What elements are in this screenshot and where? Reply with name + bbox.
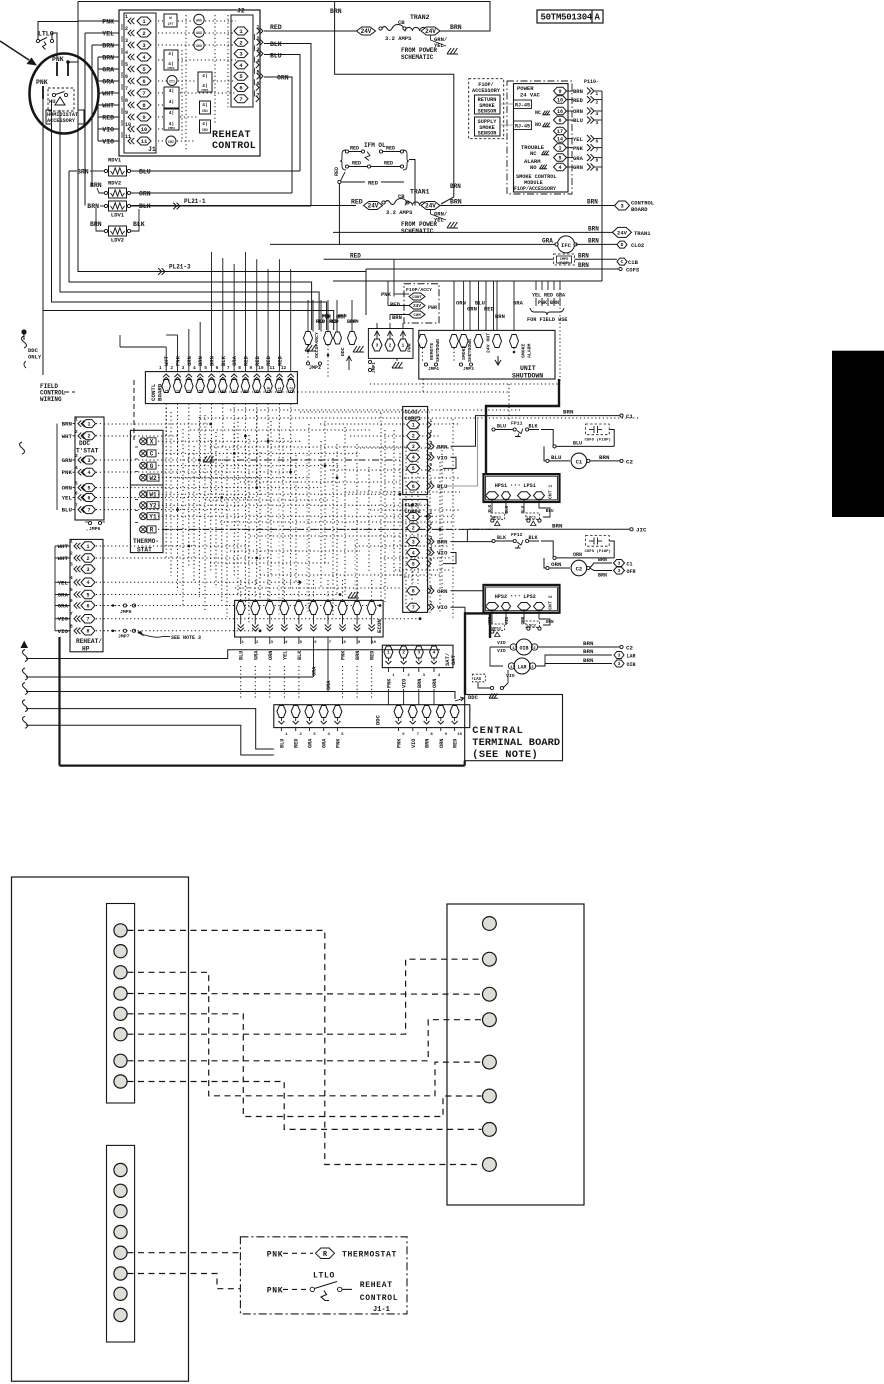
svg-text:PNK: PNK bbox=[381, 291, 392, 298]
svg-text:6: 6 bbox=[87, 495, 90, 501]
svg-text:(SEE NOTE): (SEE NOTE) bbox=[472, 749, 538, 761]
svg-text:9: 9 bbox=[250, 365, 253, 371]
svg-text:RED: RED bbox=[453, 739, 459, 748]
svg-text:ORN: ORN bbox=[573, 108, 583, 115]
svg-text:ORN: ORN bbox=[432, 679, 438, 688]
svg-text:THERMO-: THERMO- bbox=[133, 538, 159, 545]
svg-text:BRN: BRN bbox=[102, 43, 114, 50]
svg-text:GRA: GRA bbox=[322, 738, 328, 748]
svg-text:F1OP/ACCESSORY: F1OP/ACCESSORY bbox=[514, 186, 556, 192]
svg-text:PNK: PNK bbox=[538, 300, 547, 306]
svg-text:YEL: YEL bbox=[532, 293, 541, 299]
svg-text:4: 4 bbox=[430, 451, 433, 457]
svg-text:FOR FIELD USE: FOR FIELD USE bbox=[527, 317, 567, 323]
svg-text:3.2 AMPS: 3.2 AMPS bbox=[386, 209, 413, 216]
svg-text:TERMINAL BOARD: TERMINAL BOARD bbox=[472, 737, 560, 749]
svg-text:11: 11 bbox=[141, 138, 148, 145]
svg-text:2: 2 bbox=[142, 30, 145, 37]
svg-text:J2: J2 bbox=[237, 8, 245, 15]
svg-text:PWR: PWR bbox=[428, 305, 437, 311]
svg-text:CR1: CR1 bbox=[202, 109, 208, 113]
svg-text:RDV2: RDV2 bbox=[108, 180, 121, 187]
svg-text:SMOKE: SMOKE bbox=[521, 343, 527, 358]
svg-text:4: 4 bbox=[87, 470, 90, 476]
svg-text:F1OP/ACCY: F1OP/ACCY bbox=[406, 287, 432, 293]
svg-text:1: 1 bbox=[430, 510, 433, 516]
svg-text:3: 3 bbox=[618, 661, 621, 667]
svg-text:6: 6 bbox=[75, 491, 78, 497]
svg-text:PNK: PNK bbox=[573, 145, 584, 152]
svg-text:GRA: GRA bbox=[102, 79, 114, 86]
svg-text:5: 5 bbox=[70, 587, 73, 593]
svg-text:ORN: ORN bbox=[573, 552, 582, 558]
svg-text:BLU: BLU bbox=[546, 509, 554, 514]
svg-text:WHT: WHT bbox=[58, 543, 69, 550]
svg-text:3: 3 bbox=[70, 562, 73, 568]
svg-text:10: 10 bbox=[141, 126, 148, 133]
svg-text:PNK: PNK bbox=[36, 79, 48, 86]
svg-text:RED: RED bbox=[350, 146, 359, 152]
svg-text:YEL: YEL bbox=[573, 136, 584, 143]
svg-text:RED: RED bbox=[351, 199, 363, 206]
svg-text:PNK: PNK bbox=[267, 1286, 284, 1295]
svg-text:DDC: DDC bbox=[375, 714, 382, 725]
svg-text:2: 2 bbox=[596, 100, 599, 106]
svg-text:9: 9 bbox=[142, 114, 145, 121]
svg-text:ORN: ORN bbox=[521, 616, 526, 624]
svg-text:JIC: JIC bbox=[636, 527, 647, 534]
svg-text:ALARM: ALARM bbox=[527, 343, 533, 358]
svg-text:CONT: CONT bbox=[412, 296, 422, 300]
svg-text:OFR: OFR bbox=[627, 569, 636, 575]
svg-text:6: 6 bbox=[70, 598, 73, 604]
svg-text:BLU: BLU bbox=[551, 454, 562, 461]
svg-text:1: 1 bbox=[412, 423, 415, 429]
svg-text:D: D bbox=[621, 242, 624, 248]
svg-text:GRA: GRA bbox=[573, 155, 584, 162]
svg-text:7: 7 bbox=[70, 611, 73, 617]
svg-text:A: A bbox=[595, 13, 601, 23]
svg-text:GRA: GRA bbox=[513, 300, 524, 307]
svg-text:NO: NO bbox=[535, 122, 541, 128]
svg-text:11: 11 bbox=[279, 386, 283, 392]
svg-text:CONTROL: CONTROL bbox=[360, 1294, 399, 1303]
svg-text:RED: RED bbox=[386, 146, 395, 152]
svg-text:BLU: BLU bbox=[239, 651, 245, 660]
svg-text:BRN: BRN bbox=[450, 24, 462, 31]
svg-text:RED: RED bbox=[350, 252, 361, 259]
svg-text:4|: 4| bbox=[169, 88, 174, 94]
svg-text:ORN: ORN bbox=[62, 485, 73, 492]
svg-text:4|: 4| bbox=[168, 51, 173, 57]
svg-text:C2: C2 bbox=[626, 458, 633, 465]
svg-text:X: X bbox=[150, 439, 154, 446]
svg-text:BLK: BLK bbox=[139, 203, 151, 210]
svg-text:BLK: BLK bbox=[497, 535, 506, 541]
svg-text:BRN: BRN bbox=[583, 640, 594, 647]
svg-text:3: 3 bbox=[412, 444, 415, 450]
svg-text:5: 5 bbox=[257, 70, 260, 76]
svg-text:OAT: OAT bbox=[450, 654, 457, 665]
svg-text:JMP1: JMP1 bbox=[371, 362, 377, 373]
svg-text:4: 4 bbox=[433, 650, 436, 656]
svg-text:LTLO: LTLO bbox=[313, 1272, 335, 1281]
svg-text:BRN: BRN bbox=[347, 319, 356, 325]
svg-text:COFS: COFS bbox=[626, 267, 640, 274]
svg-text:GRN: GRN bbox=[62, 457, 73, 464]
svg-text:BRN: BRN bbox=[62, 421, 73, 428]
svg-text:BLK: BLK bbox=[220, 355, 227, 366]
svg-text:4|: 4| bbox=[202, 121, 207, 127]
svg-text:C: C bbox=[150, 451, 154, 458]
svg-text:VIO: VIO bbox=[102, 139, 114, 146]
svg-text:6: 6 bbox=[125, 74, 128, 80]
svg-text:BRN: BRN bbox=[437, 443, 448, 450]
svg-text:4: 4 bbox=[596, 111, 599, 117]
svg-text:IFC: IFC bbox=[561, 242, 572, 249]
svg-text:11: 11 bbox=[269, 365, 275, 371]
svg-text:CR2: CR2 bbox=[202, 128, 208, 132]
svg-text:PWR: PWR bbox=[407, 343, 413, 352]
svg-text:2: 2 bbox=[170, 365, 173, 371]
svg-text:C1: C1 bbox=[576, 458, 583, 465]
svg-text:WHT: WHT bbox=[102, 103, 114, 110]
svg-text:FROM POWER: FROM POWER bbox=[401, 221, 437, 228]
svg-text:BRN: BRN bbox=[450, 199, 462, 206]
svg-text:RED: RED bbox=[384, 161, 393, 167]
svg-text:C1: C1 bbox=[627, 562, 633, 568]
svg-text:VIO: VIO bbox=[58, 628, 69, 635]
svg-text:4: 4 bbox=[412, 550, 415, 556]
svg-text:RED: RED bbox=[276, 355, 283, 366]
svg-text:JMP5: JMP5 bbox=[120, 609, 132, 615]
svg-text:BRN: BRN bbox=[563, 409, 574, 416]
svg-text:14: 14 bbox=[557, 136, 563, 142]
svg-text:24V: 24V bbox=[425, 28, 436, 35]
svg-text:TRAN1: TRAN1 bbox=[410, 189, 430, 196]
svg-text:ORN: ORN bbox=[139, 191, 151, 198]
svg-text:NC: NC bbox=[535, 110, 541, 116]
svg-text:7: 7 bbox=[87, 507, 90, 513]
svg-text:BRN: BRN bbox=[550, 300, 559, 306]
svg-text:2: 2 bbox=[389, 343, 392, 349]
svg-text:RED: RED bbox=[294, 739, 300, 748]
svg-text:24V: 24V bbox=[425, 203, 436, 210]
svg-text:CT1: CT1 bbox=[169, 80, 175, 84]
svg-text:2: 2 bbox=[125, 26, 128, 32]
svg-text:BRN: BRN bbox=[573, 88, 583, 95]
svg-text:OIB: OIB bbox=[627, 662, 636, 668]
svg-text:JMP7: JMP7 bbox=[118, 634, 130, 640]
svg-text:3: 3 bbox=[376, 343, 379, 349]
svg-text:PNK: PNK bbox=[52, 56, 64, 63]
svg-text:RJ-45: RJ-45 bbox=[515, 124, 530, 130]
svg-text:BRN: BRN bbox=[330, 8, 342, 15]
svg-text:BLK: BLK bbox=[297, 650, 303, 660]
svg-text:COFS (F1OP): COFS (F1OP) bbox=[585, 437, 611, 442]
svg-text:BRN: BRN bbox=[583, 648, 594, 655]
svg-text:BRN: BRN bbox=[90, 182, 102, 189]
svg-text:BLU: BLU bbox=[270, 53, 282, 60]
svg-text:12: 12 bbox=[281, 365, 287, 371]
svg-text:BRN: BRN bbox=[578, 252, 589, 259]
svg-text:PNK: PNK bbox=[267, 1250, 284, 1259]
svg-text:REHEAT: REHEAT bbox=[360, 1281, 393, 1290]
svg-text:BRN: BRN bbox=[578, 262, 589, 269]
svg-text:BRN: BRN bbox=[417, 679, 423, 688]
svg-text:1: 1 bbox=[412, 514, 415, 520]
svg-text:COM: COM bbox=[413, 314, 421, 318]
svg-text:6: 6 bbox=[216, 365, 219, 371]
svg-text:GRN: GRN bbox=[573, 164, 583, 171]
svg-text:ORN: ORN bbox=[437, 588, 448, 595]
svg-text:C2: C2 bbox=[576, 565, 583, 572]
svg-text:BOARD: BOARD bbox=[631, 206, 648, 213]
svg-text:TRAN2: TRAN2 bbox=[410, 14, 430, 21]
svg-text:BLU: BLU bbox=[62, 507, 73, 514]
svg-text:HP: HP bbox=[82, 646, 90, 653]
svg-text:VIO: VIO bbox=[402, 679, 408, 688]
svg-text:1: 1 bbox=[87, 421, 90, 427]
svg-text:SHUTDOWN: SHUTDOWN bbox=[435, 339, 441, 362]
svg-text:3: 3 bbox=[430, 440, 433, 446]
svg-text:RJ-45: RJ-45 bbox=[515, 103, 530, 109]
svg-text:WHT: WHT bbox=[102, 91, 114, 98]
svg-text:BLU: BLU bbox=[573, 117, 583, 124]
svg-text:24 VAC: 24 VAC bbox=[520, 92, 541, 99]
svg-text:BRN: BRN bbox=[587, 199, 598, 206]
svg-text:BRN: BRN bbox=[87, 203, 99, 210]
svg-text:R: R bbox=[150, 527, 154, 534]
svg-text:RED: RED bbox=[334, 167, 340, 176]
svg-text:6: 6 bbox=[430, 480, 433, 486]
svg-text:7: 7 bbox=[239, 96, 242, 103]
svg-text:10: 10 bbox=[371, 641, 376, 645]
svg-text:OIB: OIB bbox=[519, 646, 528, 652]
svg-text:PL21-1: PL21-1 bbox=[184, 198, 206, 205]
svg-text:3: 3 bbox=[182, 365, 185, 371]
svg-text:24V: 24V bbox=[368, 203, 379, 210]
svg-text:2: 2 bbox=[75, 429, 78, 435]
svg-text:6: 6 bbox=[86, 603, 89, 609]
svg-text:3: 3 bbox=[430, 535, 433, 541]
svg-text:RED: RED bbox=[368, 180, 379, 187]
svg-text:50TM501304: 50TM501304 bbox=[541, 13, 593, 23]
svg-text:GRA: GRA bbox=[556, 293, 565, 299]
svg-text:1: 1 bbox=[402, 343, 405, 349]
svg-text:1: 1 bbox=[430, 418, 433, 424]
svg-text:T'STAT: T'STAT bbox=[76, 448, 99, 455]
svg-text:BRN: BRN bbox=[208, 356, 215, 366]
svg-text:10: 10 bbox=[258, 365, 264, 371]
svg-text:3: 3 bbox=[125, 38, 128, 44]
svg-text:2: 2 bbox=[86, 556, 89, 562]
svg-text:BLK: BLK bbox=[529, 424, 538, 430]
svg-text:GRA: GRA bbox=[58, 603, 69, 610]
svg-text:SHUTDOWN: SHUTDOWN bbox=[467, 339, 473, 362]
svg-text:1: 1 bbox=[558, 145, 561, 151]
svg-text:10: 10 bbox=[125, 122, 131, 128]
svg-text:BRN: BRN bbox=[355, 651, 361, 660]
svg-text:ORN: ORN bbox=[439, 739, 445, 748]
svg-text:RED: RED bbox=[352, 161, 361, 167]
svg-text:RED: RED bbox=[270, 24, 282, 31]
svg-text:VIO: VIO bbox=[411, 739, 417, 748]
svg-text:GRN: GRN bbox=[467, 306, 477, 313]
svg-text:7: 7 bbox=[412, 605, 415, 611]
svg-text:5: 5 bbox=[75, 481, 78, 487]
svg-text:VIO: VIO bbox=[437, 604, 448, 611]
svg-text:PL21-3: PL21-3 bbox=[169, 264, 191, 271]
svg-text:3: 3 bbox=[618, 653, 621, 659]
svg-text:8: 8 bbox=[596, 158, 599, 164]
svg-text:4: 4 bbox=[558, 165, 561, 171]
svg-text:7: 7 bbox=[125, 86, 128, 92]
svg-text:6: 6 bbox=[239, 84, 242, 91]
svg-text:2: 2 bbox=[402, 650, 405, 656]
svg-text:GRA: GRA bbox=[542, 238, 553, 245]
svg-text:FP12: FP12 bbox=[511, 532, 523, 538]
svg-text:ORN: ORN bbox=[277, 75, 289, 82]
svg-text:LAR: LAR bbox=[517, 665, 526, 671]
svg-text:DDC: DDC bbox=[340, 347, 346, 356]
svg-text:5: 5 bbox=[204, 365, 207, 371]
svg-text:3: 3 bbox=[417, 650, 420, 656]
svg-text:JMP3: JMP3 bbox=[463, 366, 474, 372]
svg-text:CMP1: CMP1 bbox=[201, 89, 208, 92]
svg-text:6: 6 bbox=[596, 139, 599, 145]
svg-text:4: 4 bbox=[75, 465, 78, 471]
svg-text:4: 4 bbox=[70, 575, 73, 581]
svg-text:BLU: BLU bbox=[521, 505, 526, 513]
svg-text:RDV1: RDV1 bbox=[108, 157, 122, 164]
svg-text:NO: NO bbox=[530, 164, 537, 171]
svg-text:RED: RED bbox=[390, 301, 401, 308]
svg-text:SENSOR: SENSOR bbox=[478, 131, 498, 137]
svg-text:3: 3 bbox=[412, 539, 415, 545]
svg-text:1: 1 bbox=[70, 539, 73, 545]
svg-text:REHEAT: REHEAT bbox=[212, 130, 251, 141]
svg-text:PNK: PNK bbox=[335, 738, 341, 748]
svg-text:BLK: BLK bbox=[529, 535, 538, 541]
svg-text:ORN: ORN bbox=[551, 561, 562, 568]
svg-text:24V: 24V bbox=[361, 28, 372, 35]
svg-text:9: 9 bbox=[596, 167, 599, 173]
svg-text:AUX: AUX bbox=[196, 19, 202, 23]
svg-text:RED: RED bbox=[242, 355, 249, 366]
svg-text:UNIT: UNIT bbox=[520, 365, 536, 372]
svg-text:LDV1: LDV1 bbox=[111, 212, 125, 219]
svg-text:BRN: BRN bbox=[495, 313, 505, 320]
svg-text:HPS2: HPS2 bbox=[495, 594, 507, 600]
svg-text:BRN: BRN bbox=[583, 657, 594, 664]
svg-text:IFM OL: IFM OL bbox=[364, 142, 386, 149]
svg-text:SEE NOTE 3: SEE NOTE 3 bbox=[171, 635, 201, 641]
svg-text:9: 9 bbox=[125, 110, 128, 116]
svg-text:4: 4 bbox=[125, 50, 128, 56]
svg-text:BRN: BRN bbox=[588, 226, 599, 233]
svg-text:2: 2 bbox=[239, 39, 242, 46]
svg-text:TRAN1: TRAN1 bbox=[634, 230, 651, 237]
svg-text:PNK: PNK bbox=[175, 355, 182, 366]
svg-text:J1-1: J1-1 bbox=[373, 1306, 390, 1314]
svg-text:11: 11 bbox=[125, 134, 131, 140]
svg-text:STAT: STAT bbox=[137, 547, 152, 554]
svg-text:16: 16 bbox=[557, 109, 563, 115]
svg-text:4|: 4| bbox=[169, 110, 174, 116]
svg-text:4: 4 bbox=[86, 580, 89, 586]
svg-text:SCHEMATIC: SCHEMATIC bbox=[401, 54, 434, 61]
svg-text:2: 2 bbox=[257, 36, 260, 42]
svg-text:3: 3 bbox=[257, 47, 260, 53]
svg-text:SENSOR: SENSOR bbox=[478, 109, 498, 115]
svg-text:PNK: PNK bbox=[397, 738, 403, 748]
svg-text:BRN: BRN bbox=[588, 238, 599, 245]
svg-text:5: 5 bbox=[86, 592, 89, 598]
svg-text:ORN: ORN bbox=[546, 620, 554, 625]
svg-text:3: 3 bbox=[618, 568, 621, 574]
svg-text:PNK: PNK bbox=[62, 469, 73, 476]
svg-text:PNK: PNK bbox=[341, 650, 347, 660]
svg-text:C: C bbox=[621, 259, 624, 265]
svg-text:GRA: GRA bbox=[326, 680, 332, 690]
svg-text:WIRING: WIRING bbox=[40, 396, 62, 403]
svg-text:1: 1 bbox=[596, 91, 599, 97]
svg-text:7: 7 bbox=[596, 148, 599, 154]
svg-text:AUX: AUX bbox=[196, 31, 202, 35]
svg-text:7: 7 bbox=[86, 617, 89, 623]
svg-text:4: 4 bbox=[257, 58, 260, 64]
svg-text:12: 12 bbox=[291, 386, 295, 392]
svg-text:GRA: GRA bbox=[58, 592, 69, 599]
svg-text:ONLY: ONLY bbox=[28, 354, 42, 361]
svg-text:7: 7 bbox=[227, 365, 230, 371]
svg-text:17: 17 bbox=[557, 129, 563, 135]
svg-text:8: 8 bbox=[125, 98, 128, 104]
svg-text:LPS1: LPS1 bbox=[523, 483, 535, 489]
svg-text:BRN: BRN bbox=[598, 573, 607, 579]
svg-text:CB: CB bbox=[398, 193, 405, 200]
svg-text:LTLO: LTLO bbox=[38, 31, 54, 38]
svg-text:10: 10 bbox=[268, 386, 272, 392]
svg-text:BRN: BRN bbox=[599, 454, 610, 461]
svg-text:LPS2: LPS2 bbox=[523, 594, 535, 600]
svg-text:VIO: VIO bbox=[437, 454, 448, 461]
svg-text:BRN: BRN bbox=[77, 169, 89, 176]
svg-text:2: 2 bbox=[70, 551, 73, 557]
svg-text:REHEAT/: REHEAT/ bbox=[76, 638, 102, 645]
svg-text:WHT: WHT bbox=[163, 355, 170, 366]
svg-text:HU: HU bbox=[49, 98, 56, 105]
svg-text:6: 6 bbox=[412, 484, 415, 490]
svg-text:C2: C2 bbox=[626, 645, 633, 652]
svg-text:ORN: ORN bbox=[456, 300, 466, 307]
svg-text:3: 3 bbox=[618, 561, 621, 567]
svg-text:BRN: BRN bbox=[552, 522, 563, 529]
svg-text:24V: 24V bbox=[617, 229, 628, 236]
svg-text:BRN: BRN bbox=[392, 314, 402, 321]
svg-text:C1: C1 bbox=[626, 413, 633, 420]
svg-text:1: 1 bbox=[257, 25, 260, 31]
svg-text:4: 4 bbox=[430, 546, 433, 552]
svg-text:ACCESSORY: ACCESSORY bbox=[472, 88, 501, 94]
svg-text:10: 10 bbox=[457, 733, 462, 737]
svg-text:7: 7 bbox=[142, 90, 145, 97]
svg-text:YEL: YEL bbox=[102, 31, 114, 38]
svg-text:Y1: Y1 bbox=[149, 514, 157, 521]
svg-text:5: 5 bbox=[430, 462, 433, 468]
svg-text:GRA: GRA bbox=[307, 738, 313, 748]
